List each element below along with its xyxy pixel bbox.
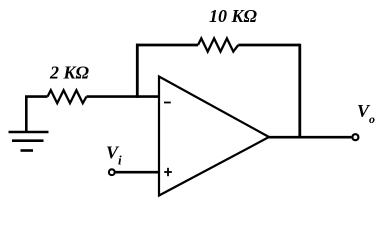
resistor R2 bbox=[198, 38, 238, 51]
wire bbox=[136, 44, 139, 98]
wire bbox=[268, 136, 351, 139]
wire bbox=[87, 95, 160, 98]
wire bbox=[136, 44, 198, 47]
wire bbox=[298, 44, 301, 139]
terminal Vo bbox=[352, 134, 358, 140]
ground bbox=[9, 96, 49, 151]
resistor R1 bbox=[48, 90, 87, 103]
op-amp non-inverting input marker + bbox=[164, 168, 172, 176]
wire bbox=[25, 95, 48, 98]
op-amp inverting input marker - bbox=[164, 102, 171, 104]
svg-text:2 KΩ: 2 KΩ bbox=[49, 63, 90, 83]
wire bbox=[116, 171, 160, 174]
wire bbox=[238, 44, 300, 47]
svg-text:10 KΩ: 10 KΩ bbox=[209, 6, 258, 26]
terminal Vi bbox=[109, 169, 115, 175]
op-amp U1 bbox=[159, 77, 269, 196]
